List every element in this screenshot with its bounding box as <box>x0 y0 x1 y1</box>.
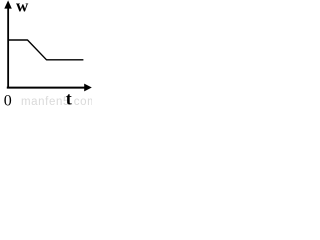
w axis arrowhead <box>4 0 12 8</box>
svg-text:0: 0 <box>4 93 12 109</box>
svg-text:w: w <box>16 0 29 16</box>
svg-text:manfen5.com: manfen5.com <box>21 96 92 108</box>
curve: w(t) polyline <box>8 40 83 60</box>
t axis arrowhead <box>84 84 92 92</box>
svg-text:t: t <box>66 89 72 109</box>
background <box>0 0 92 109</box>
t axis (horizontal) wire <box>7 87 86 89</box>
w axis (vertical) wire <box>7 6 9 88</box>
